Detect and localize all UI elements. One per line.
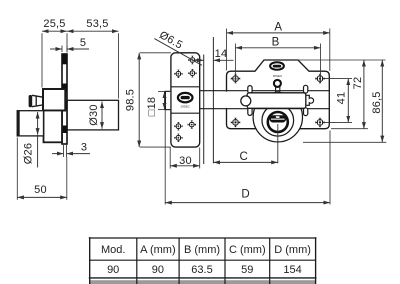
- svg-text:D: D: [241, 188, 249, 200]
- dim 14: [195, 59, 204, 61]
- logo oval: [178, 93, 193, 102]
- dim 30: [169, 148, 171, 169]
- dim 25,5: [41, 33, 43, 87]
- dim D: [164, 110, 166, 205]
- band lines: [171, 86, 200, 88]
- dim A: [226, 29, 228, 71]
- square boss: [43, 89, 65, 111]
- cylinder O26: [17, 111, 43, 136]
- dim 98.5: [140, 52, 171, 54]
- svg-text:90: 90: [107, 264, 119, 276]
- svg-text:41: 41: [336, 92, 348, 105]
- dim 5 (flange thickness): [61, 46, 63, 53]
- svg-text:B: B: [272, 36, 280, 48]
- svg-text:30: 30: [179, 155, 192, 167]
- svg-text:90: 90: [152, 264, 164, 276]
- svg-text:A: A: [274, 21, 282, 33]
- svg-text:59: 59: [241, 264, 253, 276]
- svg-text:Ø26: Ø26: [23, 143, 35, 164]
- square boss (left protrusion): [165, 91, 171, 109]
- knob circle: [241, 96, 251, 106]
- flange plate: [62, 54, 67, 144]
- svg-text:154: 154: [283, 264, 301, 276]
- svg-text:DISEC: DISEC: [273, 74, 283, 78]
- svg-text:5: 5: [80, 37, 86, 49]
- svg-text:D (mm): D (mm): [274, 244, 311, 256]
- svg-text:98.5: 98.5: [125, 89, 137, 111]
- svg-text:□18: □18: [146, 97, 158, 116]
- knob: [32, 95, 43, 106]
- svg-text:14: 14: [215, 48, 228, 60]
- dim 86,5: [303, 141, 386, 143]
- pin eye: [276, 87, 280, 93]
- bar tabs: [248, 86, 252, 94]
- cylinder circles: [253, 93, 302, 142]
- svg-text:DISEC: DISEC: [181, 104, 191, 108]
- plate: [171, 53, 200, 147]
- svg-text:63.5: 63.5: [191, 264, 212, 276]
- svg-text:A (mm): A (mm): [140, 244, 175, 256]
- center vline: [277, 124, 279, 163]
- svg-text:B (mm): B (mm): [184, 244, 220, 256]
- hump top extension: [298, 59, 386, 61]
- svg-text:50: 50: [34, 184, 47, 196]
- dim C: [213, 161, 277, 163]
- svg-text:Mod.: Mod.: [101, 244, 125, 256]
- dim square18: [158, 90, 171, 92]
- dim 3: [63, 145, 65, 157]
- svg-text:86,5: 86,5: [371, 91, 383, 113]
- body cylinder O30: [67, 100, 119, 130]
- gap in plate left edge where bar passes: [225, 92, 228, 108]
- dim 50: [16, 138, 18, 200]
- svg-text:Ø30: Ø30: [88, 104, 100, 125]
- svg-text:C (mm): C (mm): [229, 244, 266, 256]
- svg-text:25,5: 25,5: [43, 18, 65, 30]
- dim 72: [331, 128, 368, 130]
- dim O26: [37, 112, 39, 135]
- dim B: [234, 44, 236, 84]
- lower boss: [44, 111, 63, 143]
- svg-text:72: 72: [352, 77, 364, 90]
- puzzle tab right: [306, 95, 314, 105]
- svg-text:C: C: [240, 151, 248, 163]
- logo oval: [270, 62, 284, 70]
- O6.5 leader + label: [154, 39, 202, 66]
- screw holes: [231, 74, 240, 83]
- plate with hump: [227, 60, 330, 129]
- svg-text:53,5: 53,5: [86, 18, 108, 30]
- screw holes: [188, 56, 196, 64]
- svg-text:3: 3: [81, 141, 87, 153]
- dim 41: [325, 78, 353, 80]
- channel lines: [200, 90, 329, 92]
- dim 53,5: [118, 33, 120, 98]
- dim O30: [101, 102, 103, 129]
- sliding bar: [247, 93, 306, 109]
